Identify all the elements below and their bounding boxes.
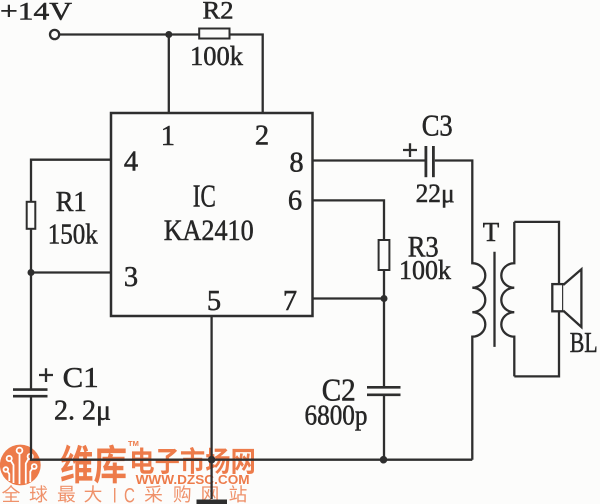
svg-text:KA2410: KA2410	[164, 214, 254, 247]
svg-text:100k: 100k	[399, 255, 451, 285]
svg-text:4: 4	[124, 147, 138, 178]
svg-text:+14V: +14V	[0, 0, 73, 26]
svg-text:3: 3	[124, 262, 138, 293]
svg-text:TM: TM	[128, 439, 139, 448]
svg-text:2: 2	[255, 121, 269, 152]
svg-text:C: C	[124, 483, 135, 504]
svg-text:C1: C1	[63, 362, 99, 394]
svg-text:150k: 150k	[48, 219, 98, 251]
svg-text:1: 1	[161, 121, 175, 152]
svg-text:R2: R2	[203, 0, 234, 25]
svg-text:6800p: 6800p	[305, 400, 368, 432]
svg-text:8: 8	[289, 148, 303, 179]
svg-text:T: T	[483, 217, 500, 247]
svg-text:I: I	[113, 483, 117, 504]
svg-text:6: 6	[288, 186, 302, 217]
svg-text:5: 5	[207, 286, 221, 317]
svg-text:BL: BL	[570, 327, 598, 359]
svg-text:7: 7	[283, 286, 297, 317]
svg-text:C3: C3	[422, 107, 453, 142]
svg-text:IC: IC	[193, 178, 216, 213]
svg-text:100k: 100k	[190, 40, 243, 71]
svg-text:R1: R1	[56, 187, 87, 218]
svg-text:2. 2μ: 2. 2μ	[54, 396, 111, 427]
svg-text:WWW.DZSC.COM: WWW.DZSC.COM	[136, 473, 250, 487]
svg-text:22μ: 22μ	[416, 179, 455, 208]
